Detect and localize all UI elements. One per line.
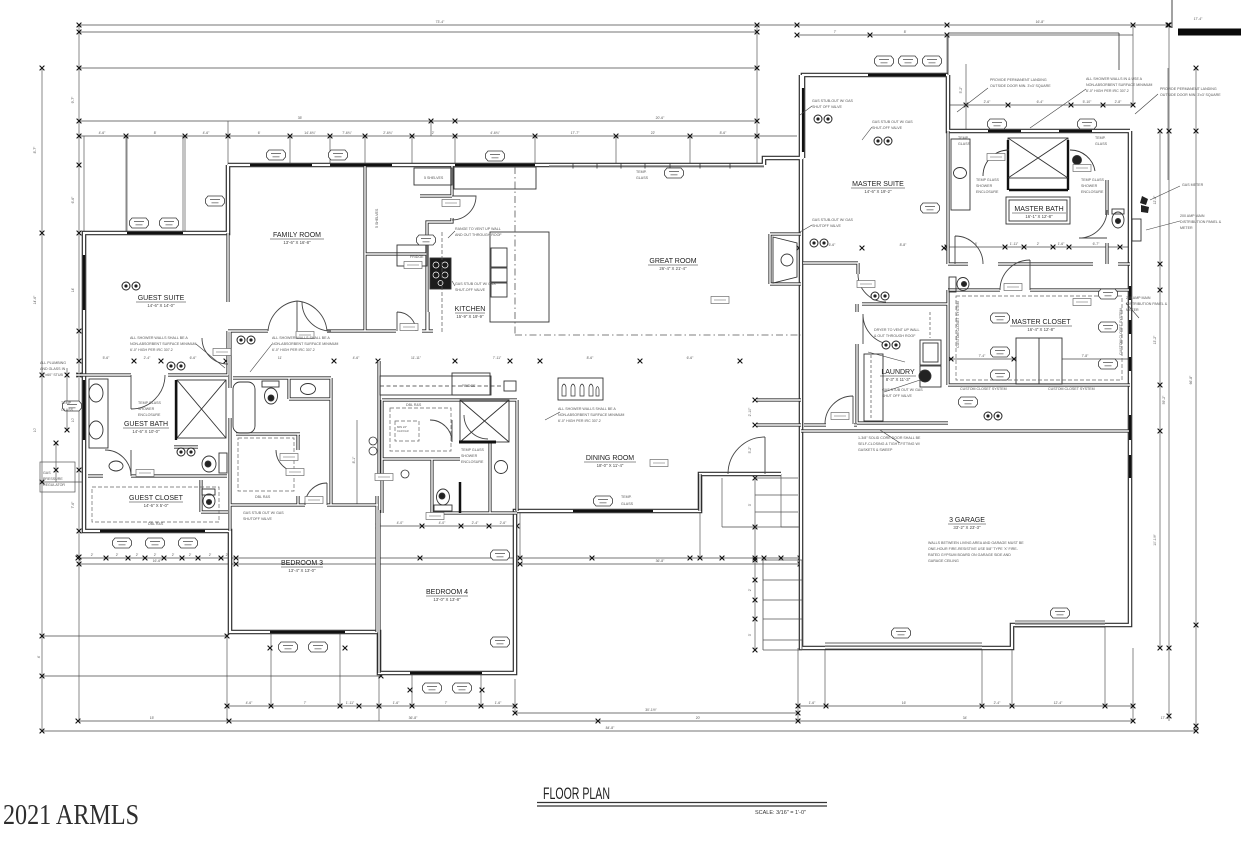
svg-text:CUSTOM CLOSET SYSTEM: CUSTOM CLOSET SYSTEM (956, 301, 960, 348)
svg-text:5'-10": 5'-10" (1083, 100, 1092, 104)
svg-text:7'-4": 7'-4" (979, 354, 987, 358)
svg-text:14'-6" X 10'-0": 14'-6" X 10'-0" (132, 429, 160, 434)
svg-text:10': 10' (71, 417, 75, 422)
svg-text:GAS STUB OUT W/ GAS: GAS STUB OUT W/ GAS (243, 511, 284, 515)
svg-text:17'-4": 17'-4" (1161, 716, 1170, 720)
svg-text:SHUT OFF VALVE: SHUT OFF VALVE (812, 105, 843, 109)
svg-text:12'-4": 12'-4" (1054, 701, 1063, 705)
svg-text:TEMP.: TEMP. (636, 170, 647, 174)
svg-text:NON-ABSORBENT SURFACE MINIMUM: NON-ABSORBENT SURFACE MINIMUM (558, 413, 624, 417)
svg-text:OUTSIDE DOOR MIN. 3'x3' SQUARE: OUTSIDE DOOR MIN. 3'x3' SQUARE (1160, 93, 1221, 97)
svg-text:ENCLOSURE: ENCLOSURE (1081, 190, 1104, 194)
svg-text:8'-6": 8'-6" (720, 131, 728, 135)
svg-text:ALL PLUMBING: ALL PLUMBING (40, 361, 66, 365)
svg-text:GAS STUB-OUT W/ GAS: GAS STUB-OUT W/ GAS (812, 99, 853, 103)
svg-text:2': 2' (189, 553, 192, 557)
svg-text:2021 ARMLS: 2021 ARMLS (3, 800, 139, 831)
svg-text:30'-1½": 30'-1½" (645, 708, 657, 712)
svg-text:1'-11": 1'-11" (1010, 242, 1019, 246)
svg-text:6'-4": 6'-4" (1037, 100, 1045, 104)
svg-text:14': 14' (71, 287, 75, 292)
svg-text:14'-6" X 5'-0": 14'-6" X 5'-0" (144, 503, 169, 508)
svg-text:4'-6": 4'-6" (99, 131, 107, 135)
svg-text:GUEST BATH: GUEST BATH (124, 421, 168, 428)
svg-text:34': 34' (963, 716, 968, 720)
svg-text:SELF-CLOSING & TIGHT-FITTING W: SELF-CLOSING & TIGHT-FITTING W/ (858, 442, 920, 446)
svg-text:TEMP GLASS: TEMP GLASS (976, 178, 1000, 182)
svg-text:SHUTOFF VALVE: SHUTOFF VALVE (812, 224, 842, 228)
svg-text:1'-6": 1'-6" (809, 701, 817, 705)
svg-text:GUEST CLOSET: GUEST CLOSET (129, 495, 184, 502)
svg-text:16'-8": 16'-8" (1036, 20, 1045, 24)
svg-text:3': 3' (748, 503, 752, 506)
svg-text:6'-0" HIGH PER IRC 307.2: 6'-0" HIGH PER IRC 307.2 (558, 419, 601, 423)
svg-text:18'-0" X 11'-4": 18'-0" X 11'-4" (597, 463, 624, 468)
svg-text:GLASS: GLASS (1095, 142, 1108, 146)
svg-text:8'-8": 8'-8" (900, 243, 908, 247)
svg-text:13'-0" X 13'-8": 13'-0" X 13'-8" (433, 597, 461, 602)
svg-text:PROVIDE PERMANENT LANDING: PROVIDE PERMANENT LANDING (990, 78, 1047, 82)
svg-text:8'-7": 8'-7" (33, 146, 37, 154)
svg-text:2': 2' (1037, 242, 1040, 246)
svg-text:METER: METER (1126, 308, 1139, 312)
svg-text:20': 20' (696, 716, 701, 720)
svg-text:CUSTOM CLOSET SYSTEM: CUSTOM CLOSET SYSTEM (960, 387, 1007, 391)
svg-text:200 AMP MAIN: 200 AMP MAIN (1180, 214, 1205, 218)
svg-text:8'-6": 8'-6" (587, 356, 595, 360)
svg-text:16'-1" X 12'-8": 16'-1" X 12'-8" (1025, 214, 1053, 219)
svg-text:METER: METER (1180, 226, 1193, 230)
svg-text:SHOWER: SHOWER (976, 184, 993, 188)
svg-text:2': 2' (748, 588, 752, 591)
svg-text:GLASS: GLASS (621, 502, 634, 506)
svg-text:MASTER CLOSET: MASTER CLOSET (1011, 319, 1071, 326)
svg-text:SHUT OFF VALVE: SHUT OFF VALVE (882, 394, 913, 398)
svg-text:4'-0": 4'-0" (397, 521, 405, 525)
svg-text:GAS METER: GAS METER (1182, 183, 1204, 187)
svg-text:FRIDGE: FRIDGE (462, 384, 476, 388)
svg-text:2': 2' (91, 553, 94, 557)
svg-text:GLASS: GLASS (636, 176, 649, 180)
svg-text:3': 3' (748, 633, 752, 636)
svg-text:17'-7": 17'-7" (571, 131, 580, 135)
svg-text:GAS STUB OUT W/ GAS: GAS STUB OUT W/ GAS (455, 282, 496, 286)
svg-text:RANGE TO VENT UP WALL: RANGE TO VENT UP WALL (455, 227, 501, 231)
svg-text:GASKETS & SWEEP: GASKETS & SWEEP (858, 448, 893, 452)
svg-text:CUSTOM CLOSET SYSTEM: CUSTOM CLOSET SYSTEM (1119, 308, 1123, 355)
svg-text:TEMP GLASS: TEMP GLASS (138, 401, 162, 405)
svg-text:REGULATOR: REGULATOR (43, 483, 65, 487)
svg-text:8': 8' (904, 30, 907, 34)
svg-text:2'-6": 2'-6" (984, 100, 992, 104)
svg-text:7'-6¾": 7'-6¾" (342, 131, 352, 135)
svg-text:SHUT-OFF VALVE: SHUT-OFF VALVE (872, 126, 903, 130)
svg-text:26'-4" X 21'-4": 26'-4" X 21'-4" (659, 266, 687, 271)
svg-text:2'-4": 2'-4" (472, 521, 480, 525)
svg-text:59'-2": 59'-2" (1162, 395, 1166, 404)
svg-text:15': 15' (150, 716, 155, 720)
svg-text:GAS STUB-OUT W/ GAS: GAS STUB-OUT W/ GAS (812, 218, 853, 222)
svg-text:BEDROOM 4: BEDROOM 4 (426, 589, 468, 596)
svg-text:DISTRIBUTION PANEL &: DISTRIBUTION PANEL & (1180, 220, 1222, 224)
svg-text:MASTER SUITE: MASTER SUITE (852, 181, 904, 188)
svg-text:TEMP GLASS: TEMP GLASS (1081, 178, 1105, 182)
svg-text:GLASS: GLASS (61, 408, 74, 412)
svg-text:DRYER TO VENT UP WALL: DRYER TO VENT UP WALL (874, 328, 919, 332)
svg-text:2'-8": 2'-8" (1115, 100, 1123, 104)
svg-text:DBL R&S: DBL R&S (406, 403, 422, 407)
svg-text:30"x60" STUB: 30"x60" STUB (40, 373, 64, 377)
svg-text:13'-2": 13'-2" (1153, 335, 1157, 344)
svg-text:PRESSURE: PRESSURE (43, 477, 63, 481)
svg-text:16'-4" X 12'-8": 16'-4" X 12'-8" (1027, 327, 1055, 332)
svg-text:15'-9" X 19'-9": 15'-9" X 19'-9" (456, 314, 484, 319)
svg-text:10'-1½": 10'-1½" (1153, 533, 1157, 545)
svg-text:CLR FLR: CLR FLR (397, 429, 409, 433)
svg-text:ALL SHOWER WALLS SHALL BE A: ALL SHOWER WALLS SHALL BE A (130, 336, 188, 340)
svg-text:MASTER BATH: MASTER BATH (1014, 206, 1063, 213)
svg-text:66'-8": 66'-8" (1189, 375, 1193, 384)
svg-text:2'-4": 2'-4" (994, 701, 1002, 705)
svg-text:2': 2' (154, 553, 157, 557)
svg-text:6'-0" HIGH PER IRC 307.2: 6'-0" HIGH PER IRC 307.2 (130, 348, 173, 352)
svg-text:TEMP.: TEMP. (621, 495, 632, 499)
svg-text:4'-6¾": 4'-6¾" (490, 131, 500, 135)
svg-text:200 AMP MAIN: 200 AMP MAIN (1126, 296, 1151, 300)
svg-text:SHOWER: SHOWER (461, 454, 478, 458)
svg-text:NON-ABSORBENT SURFACE MINIMUM: NON-ABSORBENT SURFACE MINIMUM (272, 342, 338, 346)
svg-text:4'-6": 4'-6" (203, 131, 211, 135)
svg-text:5'-6": 5'-6" (103, 356, 111, 360)
svg-text:SHOWER: SHOWER (138, 407, 155, 411)
svg-text:8': 8' (154, 131, 157, 135)
svg-text:AND GLASS IN: AND GLASS IN (40, 367, 66, 371)
svg-text:GARAGE CEILING: GARAGE CEILING (928, 559, 959, 563)
svg-text:2'-10": 2'-10" (748, 407, 752, 416)
svg-text:2': 2' (172, 553, 175, 557)
svg-text:DBL R&S: DBL R&S (148, 522, 164, 526)
svg-text:1'-6": 1'-6" (1058, 242, 1066, 246)
svg-text:22': 22' (651, 131, 656, 135)
svg-text:DISTRIBUTION PANEL &: DISTRIBUTION PANEL & (1126, 302, 1168, 306)
svg-text:6': 6' (258, 131, 261, 135)
svg-text:6'-6": 6'-6" (190, 356, 198, 360)
svg-text:OUTSIDE DOOR MIN. 3'x3' SQUARE: OUTSIDE DOOR MIN. 3'x3' SQUARE (990, 84, 1051, 88)
svg-text:6'-0" HIGH PER IRC 307.2: 6'-0" HIGH PER IRC 307.2 (1086, 89, 1129, 93)
svg-text:73'-4": 73'-4" (436, 20, 445, 24)
svg-text:2': 2' (209, 553, 212, 557)
svg-text:10': 10' (33, 427, 37, 432)
svg-text:35': 35' (298, 116, 303, 120)
svg-text:1'-6": 1'-6" (393, 701, 401, 705)
svg-text:4'-6": 4'-6" (246, 701, 254, 705)
svg-text:20'-6": 20'-6" (656, 116, 665, 120)
svg-text:CUSTOM CLOSET SYSTEM: CUSTOM CLOSET SYSTEM (1048, 387, 1095, 391)
svg-text:2': 2' (116, 553, 119, 557)
svg-text:5 SHELVES: 5 SHELVES (424, 176, 444, 180)
svg-text:13'-4" X 13'-0": 13'-4" X 13'-0" (288, 568, 316, 573)
svg-text:13'-6" X 16'-8": 13'-6" X 16'-8" (283, 240, 311, 245)
svg-text:84'-8": 84'-8" (606, 726, 615, 730)
svg-text:7': 7' (445, 701, 448, 705)
svg-text:DINING ROOM: DINING ROOM (586, 455, 634, 462)
svg-text:ALL SHOWER WALLS SHALL BE A: ALL SHOWER WALLS SHALL BE A (272, 336, 330, 340)
svg-text:3 GARAGE: 3 GARAGE (949, 517, 985, 524)
svg-text:4': 4' (37, 655, 41, 658)
svg-text:RATED GYPSUM BOARD ON GARAGE S: RATED GYPSUM BOARD ON GARAGE SIDE AND (928, 553, 1011, 557)
svg-text:PROVIDE PERMANENT LANDING: PROVIDE PERMANENT LANDING (1160, 87, 1217, 91)
svg-text:4'-0": 4'-0" (439, 521, 447, 525)
svg-text:AND OUT THROUGH ROOF: AND OUT THROUGH ROOF (455, 233, 502, 237)
svg-text:2'-4": 2'-4" (144, 356, 152, 360)
svg-text:GAS STUB OUT W/ GAS: GAS STUB OUT W/ GAS (882, 388, 923, 392)
svg-text:6'-7": 6'-7" (1093, 242, 1101, 246)
svg-text:36'-8": 36'-8" (409, 716, 418, 720)
svg-text:16': 16' (902, 701, 907, 705)
svg-text:6'-6": 6'-6" (829, 243, 837, 247)
svg-text:SHOWER: SHOWER (1081, 184, 1098, 188)
svg-text:1'-11": 1'-11" (346, 701, 355, 705)
svg-text:5 SHELVES: 5 SHELVES (375, 208, 379, 228)
svg-text:2'-6": 2'-6" (500, 521, 508, 525)
svg-text:8'-1": 8'-1" (352, 456, 356, 464)
svg-text:LAUNDRY: LAUNDRY (881, 369, 915, 376)
svg-text:ONE-HOUR FIRE-RESISTIVE USE 5/: ONE-HOUR FIRE-RESISTIVE USE 5/8" TYPE 'X… (928, 547, 1019, 551)
svg-text:FLOOR PLAN: FLOOR PLAN (543, 784, 610, 803)
svg-text:TEMP: TEMP (61, 401, 72, 405)
svg-text:ENCLOSURE: ENCLOSURE (461, 460, 484, 464)
svg-text:TEMP.: TEMP. (1095, 136, 1106, 140)
svg-text:NON-ABSORBENT SURFACE MINIMUM: NON-ABSORBENT SURFACE MINIMUM (1086, 83, 1152, 87)
svg-text:DBL R&S: DBL R&S (255, 495, 271, 499)
svg-text:4'-6": 4'-6" (353, 356, 361, 360)
svg-text:7': 7' (834, 30, 837, 34)
svg-text:2': 2' (136, 553, 139, 557)
svg-text:9'-7": 9'-7" (71, 96, 75, 104)
svg-text:12'-8": 12'-8" (1153, 195, 1157, 204)
svg-text:7'-8": 7'-8" (1082, 354, 1090, 358)
svg-text:ENCLOSURE: ENCLOSURE (138, 413, 161, 417)
svg-text:6'-6": 6'-6" (71, 196, 75, 204)
svg-text:SHUTOFF VALVE: SHUTOFF VALVE (243, 517, 273, 521)
svg-text:1-3/8" SOLID CORE DOOR SHALL B: 1-3/8" SOLID CORE DOOR SHALL BE (858, 436, 921, 440)
svg-text:FAMILY ROOM: FAMILY ROOM (273, 232, 321, 239)
svg-text:ENCLOSURE: ENCLOSURE (976, 190, 999, 194)
svg-text:2': 2' (432, 131, 435, 135)
svg-text:14'-6" X 19'-2": 14'-6" X 19'-2" (864, 189, 892, 194)
svg-text:7': 7' (304, 701, 307, 705)
svg-text:TEMP.: TEMP. (958, 136, 969, 140)
svg-text:5'-2": 5'-2" (959, 86, 963, 94)
svg-text:GUEST SUITE: GUEST SUITE (138, 295, 185, 302)
svg-text:WALLS BETWEEN LIVING AREA AND: WALLS BETWEEN LIVING AREA AND GARAGE MUS… (928, 541, 1024, 545)
svg-text:GLASS: GLASS (958, 142, 971, 146)
svg-text:7'-6": 7'-6" (71, 501, 75, 509)
svg-text:TEMP GLASS: TEMP GLASS (461, 448, 485, 452)
svg-text:SCALE: 3/16" = 1'-0": SCALE: 3/16" = 1'-0" (755, 810, 806, 816)
svg-text:BEDROOM 3: BEDROOM 3 (281, 560, 323, 567)
svg-text:8'-3" X 11'-3": 8'-3" X 11'-3" (886, 377, 911, 382)
svg-text:14'-6": 14'-6" (33, 295, 37, 304)
svg-text:GAS: GAS (43, 471, 51, 475)
svg-text:KITCHEN: KITCHEN (455, 306, 486, 313)
svg-text:2'-6¾": 2'-6¾" (383, 131, 393, 135)
svg-text:14'-6¾": 14'-6¾" (304, 131, 316, 135)
svg-text:GREAT ROOM: GREAT ROOM (649, 258, 696, 265)
svg-text:36'-8": 36'-8" (656, 559, 665, 563)
svg-text:& OUT THROUGH ROOF: & OUT THROUGH ROOF (874, 334, 916, 338)
svg-text:ALL SHOWER WALLS SHALL BE A: ALL SHOWER WALLS SHALL BE A (558, 407, 616, 411)
svg-text:ALL SHOWER WALLS IN & USE A: ALL SHOWER WALLS IN & USE A (1086, 77, 1143, 81)
svg-text:GAS STUB OUT W/ GAS: GAS STUB OUT W/ GAS (872, 120, 913, 124)
svg-text:11'-11": 11'-11" (411, 356, 422, 360)
svg-text:14'-6" X 14'-0": 14'-6" X 14'-0" (147, 303, 175, 308)
svg-text:5'-2": 5'-2" (748, 446, 752, 454)
svg-text:6'-0" HIGH PER IRC 307.2: 6'-0" HIGH PER IRC 307.2 (272, 348, 315, 352)
svg-text:1'-6": 1'-6" (495, 701, 503, 705)
svg-text:6'-6": 6'-6" (687, 356, 695, 360)
svg-text:16'-6": 16'-6" (153, 559, 162, 563)
svg-text:FRIDGE: FRIDGE (410, 255, 424, 259)
svg-text:17'-4": 17'-4" (1194, 17, 1203, 21)
svg-text:SHUT-OFF VALVE: SHUT-OFF VALVE (455, 288, 486, 292)
svg-text:11': 11' (278, 356, 283, 360)
svg-text:7'-11": 7'-11" (493, 356, 502, 360)
svg-text:33'-2" X 23'-3": 33'-2" X 23'-3" (953, 525, 981, 530)
svg-text:NON-ABSORBENT SURFACE MINIMUM: NON-ABSORBENT SURFACE MINIMUM (130, 342, 196, 346)
